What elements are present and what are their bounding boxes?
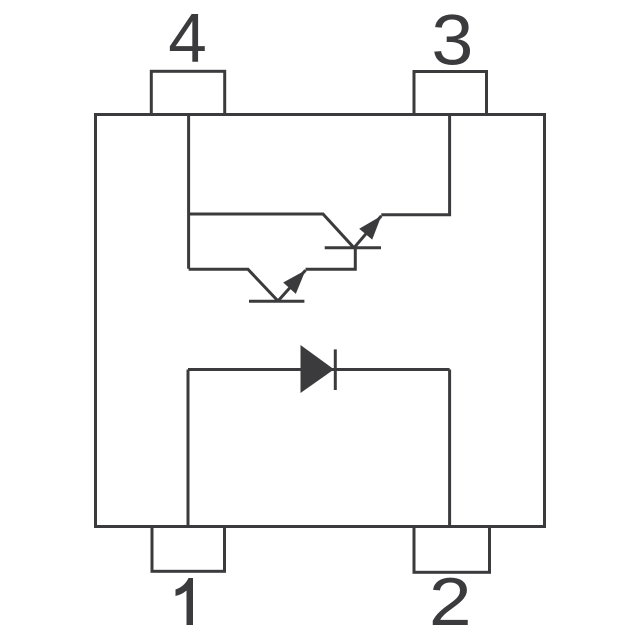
svg-text:3: 3 [431, 1, 473, 80]
svg-text:2: 2 [429, 564, 472, 640]
svg-text:4: 4 [168, 0, 207, 77]
